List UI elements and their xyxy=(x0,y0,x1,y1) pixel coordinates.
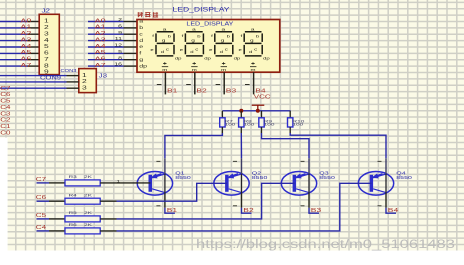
svg-text:C6: C6 xyxy=(36,195,47,200)
svg-text:C2: C2 xyxy=(0,118,11,123)
svg-text:A0: A0 xyxy=(95,17,106,24)
svg-text:a: a xyxy=(192,27,196,31)
svg-text:e: e xyxy=(209,48,213,52)
svg-text:A7: A7 xyxy=(20,62,31,69)
svg-text:100: 100 xyxy=(292,123,303,127)
svg-text:m: m xyxy=(250,68,255,72)
svg-text:2: 2 xyxy=(44,25,49,31)
svg-text:b: b xyxy=(139,26,143,30)
svg-text:11: 11 xyxy=(115,37,122,41)
svg-text:a: a xyxy=(163,27,167,31)
svg-text:2K: 2K xyxy=(84,193,92,197)
svg-text:e: e xyxy=(150,48,154,52)
svg-text:A5: A5 xyxy=(20,49,31,56)
svg-text:g: g xyxy=(221,39,225,43)
svg-text:C5: C5 xyxy=(36,213,47,218)
svg-text:R3: R3 xyxy=(69,175,77,179)
svg-text:A5: A5 xyxy=(95,49,106,56)
svg-text:g: g xyxy=(191,39,195,43)
svg-text:C7: C7 xyxy=(0,86,11,91)
svg-text:8: 8 xyxy=(118,56,122,60)
svg-text:https://blog.csdn.net/m0_51061: https://blog.csdn.net/m0_51061483 xyxy=(196,238,455,251)
svg-text:R4: R4 xyxy=(69,193,77,197)
svg-text:m: m xyxy=(192,68,197,72)
svg-text:dp: dp xyxy=(234,56,241,60)
svg-text:C5: C5 xyxy=(0,99,11,104)
svg-text:LED_DISPLAY: LED_DISPLAY xyxy=(173,6,230,13)
svg-text:12: 12 xyxy=(114,44,122,48)
svg-text:9: 9 xyxy=(44,69,49,75)
svg-text:B4: B4 xyxy=(388,207,398,213)
svg-text:C0: C0 xyxy=(0,131,11,136)
svg-text:d: d xyxy=(161,50,165,54)
svg-text:8: 8 xyxy=(44,63,49,69)
svg-text:a: a xyxy=(221,27,225,31)
svg-text:100: 100 xyxy=(264,123,275,127)
svg-text:4: 4 xyxy=(44,37,49,43)
svg-text:A6: A6 xyxy=(20,55,31,62)
svg-text:g: g xyxy=(250,39,254,43)
svg-text:R5: R5 xyxy=(69,211,77,215)
svg-text:C3: C3 xyxy=(0,112,11,117)
svg-text:A2: A2 xyxy=(20,30,31,37)
svg-text:5: 5 xyxy=(118,50,122,54)
svg-text:dp: dp xyxy=(139,64,147,68)
svg-text:A3: A3 xyxy=(20,36,31,43)
svg-text:2K: 2K xyxy=(84,223,92,227)
svg-text:A6: A6 xyxy=(95,55,106,62)
svg-text:1: 1 xyxy=(117,180,121,184)
svg-text:LED_DISPLAY: LED_DISPLAY xyxy=(186,20,233,27)
svg-text:B1: B1 xyxy=(167,88,177,94)
svg-text:6: 6 xyxy=(44,50,49,56)
svg-text:6: 6 xyxy=(118,25,122,29)
svg-text:e: e xyxy=(180,48,184,52)
svg-text:d: d xyxy=(190,50,194,54)
svg-text:g: g xyxy=(139,58,143,62)
svg-text:2K: 2K xyxy=(84,175,92,179)
svg-text:b: b xyxy=(168,35,172,39)
svg-text:8550: 8550 xyxy=(252,176,268,180)
svg-text:B3: B3 xyxy=(311,207,321,213)
svg-text:dp: dp xyxy=(263,56,270,60)
svg-text:dp: dp xyxy=(175,56,182,60)
svg-text:C6: C6 xyxy=(0,92,11,97)
svg-text:3: 3 xyxy=(44,31,49,37)
svg-text:2K: 2K xyxy=(84,211,92,215)
svg-text:d: d xyxy=(249,50,253,54)
svg-text:C4: C4 xyxy=(36,225,47,230)
svg-text:1: 1 xyxy=(44,18,49,24)
svg-text:A2: A2 xyxy=(95,30,106,37)
svg-text:5: 5 xyxy=(44,44,49,50)
svg-text:b: b xyxy=(197,35,201,39)
svg-text:c: c xyxy=(139,32,143,36)
svg-text:8550: 8550 xyxy=(175,176,191,180)
svg-text:B2: B2 xyxy=(196,88,206,94)
svg-text:100: 100 xyxy=(225,123,236,127)
svg-text:100: 100 xyxy=(244,123,255,127)
svg-text:1: 1 xyxy=(82,72,87,78)
svg-text:A0: A0 xyxy=(20,17,31,24)
svg-text:R6: R6 xyxy=(69,223,77,227)
svg-text:9: 9 xyxy=(118,31,122,35)
svg-text:A7: A7 xyxy=(95,62,106,69)
svg-text:C1: C1 xyxy=(0,124,11,129)
svg-text:e: e xyxy=(139,45,143,49)
svg-text:e: e xyxy=(239,48,243,52)
svg-text:b: b xyxy=(256,35,260,39)
svg-text:J3: J3 xyxy=(99,74,108,79)
svg-text:16: 16 xyxy=(114,63,122,67)
svg-text:d: d xyxy=(139,39,143,43)
svg-text:dp: dp xyxy=(204,56,211,60)
svg-text:m: m xyxy=(221,68,226,72)
svg-text:g: g xyxy=(162,39,166,43)
svg-text:C7: C7 xyxy=(36,177,47,182)
svg-text:2: 2 xyxy=(118,18,122,22)
svg-text:J2: J2 xyxy=(42,9,51,14)
svg-text:VCC: VCC xyxy=(254,95,271,100)
svg-text:8550: 8550 xyxy=(319,176,335,180)
svg-text:CON9: CON9 xyxy=(40,76,61,81)
svg-text:B2: B2 xyxy=(243,207,253,213)
svg-text:B3: B3 xyxy=(226,88,236,94)
svg-text:B4: B4 xyxy=(255,88,265,94)
svg-text:CON3: CON3 xyxy=(61,69,77,73)
svg-text:B1: B1 xyxy=(167,207,177,213)
svg-text:b: b xyxy=(227,35,231,39)
svg-text:A3: A3 xyxy=(95,36,106,43)
svg-text:8550: 8550 xyxy=(396,176,412,180)
svg-text:3: 3 xyxy=(82,85,87,91)
svg-text:d: d xyxy=(220,50,224,54)
svg-text:C4: C4 xyxy=(0,105,11,110)
svg-text:a: a xyxy=(251,27,255,31)
svg-text:m: m xyxy=(162,68,167,72)
svg-text:7: 7 xyxy=(44,56,49,62)
svg-text:2: 2 xyxy=(82,79,87,85)
